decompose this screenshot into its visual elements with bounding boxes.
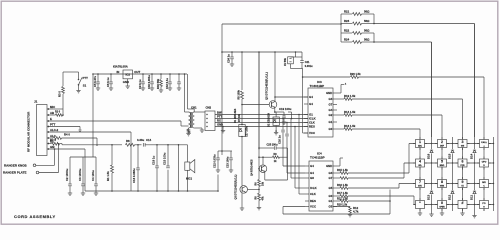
svg-text:1: 1 bbox=[419, 140, 421, 144]
keypad row wire bbox=[399, 183, 494, 185]
svg-text:C13 0.068u: C13 0.068u bbox=[132, 168, 136, 183]
svg-text:4: 4 bbox=[419, 160, 421, 164]
svg-text:R16 1.5k: R16 1.5k bbox=[337, 183, 348, 187]
svg-text:MIC1: MIC1 bbox=[186, 177, 193, 180]
capacitor C18 1u bbox=[156, 145, 158, 166]
keypad column ground bbox=[462, 209, 464, 214]
capacitor C4 100u bbox=[95, 157, 97, 184]
svg-text:R21: R21 bbox=[344, 10, 350, 14]
svg-text:J1: J1 bbox=[34, 100, 38, 104]
capacitor C9 0.1u bbox=[142, 73, 144, 75]
svg-text:56Ω: 56Ω bbox=[364, 19, 370, 23]
wire ALC-2 pin bbox=[49, 131, 131, 133]
hook IC4 GND bbox=[337, 165, 340, 167]
svg-text:R11 1.5k: R11 1.5k bbox=[337, 197, 348, 201]
capacitor C6 0.1u bbox=[110, 73, 112, 75]
svg-text:R17 1.5k: R17 1.5k bbox=[337, 191, 348, 195]
svg-text:D2 KB262H: D2 KB262H bbox=[266, 113, 270, 127]
capacitor C11 bbox=[178, 73, 180, 75]
svg-text:Q3 DTC114ES(R,G,L): Q3 DTC114ES(R,G,L) bbox=[235, 174, 238, 199]
svg-text:PTT: PTT bbox=[50, 123, 56, 127]
svg-text:0.001u: 0.001u bbox=[305, 65, 313, 68]
svg-text:G7: G7 bbox=[329, 103, 333, 107]
wire emitter to IC3 bbox=[288, 111, 292, 113]
zener D1 RD5.6ES loop bbox=[239, 125, 245, 137]
svg-text:R7 0: R7 0 bbox=[50, 138, 56, 142]
svg-text:G4: G4 bbox=[310, 164, 314, 168]
svg-text:R18 1.5k: R18 1.5k bbox=[337, 204, 348, 207]
svg-text:G0: G0 bbox=[329, 127, 333, 131]
wire x302.6 VCC drop to IC3 bbox=[301, 68, 304, 70]
svg-text:56Ω: 56Ω bbox=[364, 38, 370, 42]
capacitor C19 100u bbox=[275, 111, 284, 113]
svg-text:R2 0: R2 0 bbox=[55, 111, 61, 114]
svg-text:47k: 47k bbox=[262, 196, 265, 201]
svg-text:7: 7 bbox=[419, 180, 421, 184]
svg-text:D14: D14 bbox=[470, 153, 474, 159]
svg-text:TC4011BP: TC4011BP bbox=[310, 155, 325, 159]
wire x259 VCC drop to C25 line bbox=[258, 51, 260, 53]
svg-text:R23: R23 bbox=[344, 19, 350, 23]
svg-text:MR: MR bbox=[482, 182, 486, 184]
svg-text:R3 0: R3 0 bbox=[58, 91, 62, 97]
svg-text:G1: G1 bbox=[329, 199, 333, 203]
svg-text:CH1: CH1 bbox=[191, 106, 197, 110]
svg-text:R10 56k: R10 56k bbox=[156, 78, 160, 89]
svg-text:C2 1000u: C2 1000u bbox=[65, 168, 69, 181]
svg-text:VCC: VCC bbox=[309, 131, 315, 135]
wire R13 down x420 bbox=[419, 129, 421, 137]
svg-text:D1 RD5.6ES: D1 RD5.6ES bbox=[234, 108, 237, 123]
key switch 9 bbox=[458, 180, 467, 188]
ground rail wire y191 bbox=[85, 190, 218, 192]
svg-text:C25 100u: C25 100u bbox=[267, 144, 278, 147]
key switch 7 bbox=[416, 180, 425, 188]
svg-text:D15: D15 bbox=[448, 153, 452, 159]
svg-text:G7: G7 bbox=[329, 176, 333, 180]
svg-text:RX: RX bbox=[217, 119, 221, 123]
svg-text:R4 0: R4 0 bbox=[64, 132, 70, 136]
svg-text:G4: G4 bbox=[309, 102, 313, 106]
key switch 8 bbox=[438, 180, 447, 188]
IC4 TC4011BP bbox=[309, 161, 333, 211]
keypad column wire bbox=[462, 137, 464, 209]
svg-text:8: 8 bbox=[441, 180, 443, 184]
keypad bus 2 bbox=[452, 137, 454, 211]
svg-text:X1 56k: X1 56k bbox=[284, 57, 287, 66]
wire crystal bottom manifold bbox=[291, 68, 303, 70]
wire rail to CH1 bbox=[184, 74, 186, 112]
svg-text:S1: S1 bbox=[83, 83, 87, 87]
keypad row wire bbox=[404, 162, 494, 164]
svg-text:BW: BW bbox=[217, 111, 222, 115]
svg-text:C4 100u: C4 100u bbox=[91, 170, 95, 181]
svg-text:C12 0.1u: C12 0.1u bbox=[165, 78, 169, 89]
resistor R7 0 on RX row bbox=[49, 143, 51, 145]
capacitor R10 56k bbox=[160, 73, 162, 75]
key switch 4 bbox=[416, 159, 425, 167]
svg-text:D11: D11 bbox=[470, 195, 474, 200]
svg-text:G2: G2 bbox=[329, 113, 333, 117]
keypad bus 1 bbox=[431, 42, 433, 214]
IC2 KIA78L05A regulator bbox=[123, 70, 133, 79]
microphone MIC1 bbox=[187, 145, 189, 162]
svg-text:CALL: CALL bbox=[481, 141, 487, 144]
wire AB pin with R2 0 bbox=[49, 114, 56, 116]
diode D11 bbox=[473, 190, 477, 194]
wire R19 down x462.5 bbox=[462, 99, 464, 137]
svg-text:IN: IN bbox=[117, 70, 120, 74]
svg-text:C5 0.47u: C5 0.47u bbox=[93, 76, 97, 87]
svg-text:AB: AB bbox=[50, 111, 54, 115]
wire R20 down x484 bbox=[483, 77, 485, 137]
svg-text:9: 9 bbox=[462, 180, 464, 184]
svg-text:R1 1.5k: R1 1.5k bbox=[106, 171, 110, 181]
wire rail191 end riser x218 bbox=[217, 175, 219, 192]
svg-text:D12: D12 bbox=[448, 194, 452, 200]
svg-text:CLK: CLK bbox=[310, 192, 317, 196]
wire GM pin bbox=[49, 148, 85, 150]
svg-text:ABC: ABC bbox=[418, 145, 423, 148]
manifold wire y151 bbox=[218, 150, 232, 152]
svg-text:CORD ASSEMBLY: CORD ASSEMBLY bbox=[14, 214, 56, 219]
svg-text:UFO: UFO bbox=[482, 162, 487, 164]
diode D12 bbox=[451, 190, 455, 194]
switch S1 PTT bbox=[63, 71, 79, 73]
hook IC3 GND arrow bbox=[337, 92, 341, 94]
wire x275 to Q5 bbox=[274, 51, 276, 53]
wires CH1 to CN2 bbox=[194, 111, 205, 113]
capacitor C15 100u bbox=[167, 145, 169, 166]
svg-text:C27 100u: C27 100u bbox=[246, 126, 249, 137]
svg-text:56Ω: 56Ω bbox=[364, 29, 370, 33]
keypad row wire bbox=[414, 204, 494, 206]
diode D13 bbox=[430, 190, 434, 194]
audio bus wire bbox=[60, 143, 63, 145]
svg-text:G0: G0 bbox=[329, 194, 333, 198]
capacitor C12 0.1u bbox=[169, 73, 171, 75]
wire y24 to resistor bank bbox=[222, 23, 341, 25]
Q3 collector wire bbox=[241, 137, 243, 186]
resistor R9 1k parallel bbox=[259, 156, 273, 158]
key switch 5 bbox=[438, 159, 447, 167]
wire E pin bbox=[49, 120, 181, 122]
svg-text:PO: PO bbox=[482, 203, 485, 205]
key switch 6 bbox=[458, 159, 467, 167]
resistor R12 4.7k bbox=[333, 206, 350, 208]
svg-text:C23 100u: C23 100u bbox=[226, 156, 230, 168]
svg-text:C16 1u: C16 1u bbox=[278, 135, 282, 144]
diode D14 bbox=[473, 149, 477, 153]
svg-text:R5 100k: R5 100k bbox=[238, 89, 241, 99]
wire Q5 collector to IC3 bbox=[275, 96, 308, 98]
svg-text:C22 0.033u: C22 0.033u bbox=[213, 154, 217, 168]
svg-text:G4: G4 bbox=[309, 95, 313, 99]
svg-text:PQR: PQR bbox=[460, 165, 465, 167]
svg-text:G4: G4 bbox=[310, 171, 314, 175]
svg-text:R8: R8 bbox=[126, 139, 130, 143]
svg-text:RF MODULAR CONNECTOR: RF MODULAR CONNECTOR bbox=[27, 111, 31, 152]
svg-text:C19 100u: C19 100u bbox=[279, 107, 292, 111]
keypad column ground bbox=[419, 209, 421, 214]
CALL column bottom stub bbox=[483, 209, 485, 212]
svg-text:GND: GND bbox=[123, 80, 129, 84]
Q4 emitter wire bbox=[264, 172, 266, 180]
svg-text:OPER: OPER bbox=[439, 207, 445, 209]
key switch 0 bbox=[438, 201, 447, 209]
left-side verticals to IC4 bbox=[282, 119, 284, 167]
svg-text:C10 0.001u: C10 0.001u bbox=[147, 75, 151, 89]
IC3 TC4011BP bbox=[308, 88, 333, 137]
svg-text:R20 1.5k: R20 1.5k bbox=[350, 72, 361, 76]
key switch 2 bbox=[438, 140, 447, 148]
svg-text:2: 2 bbox=[441, 140, 443, 144]
keypad column wire bbox=[419, 137, 421, 209]
svg-text:PTT: PTT bbox=[217, 115, 222, 119]
capacitor C3 1000u bbox=[82, 157, 84, 184]
connector CN2 bbox=[205, 111, 215, 131]
resistor R5 100k bbox=[241, 51, 243, 53]
svg-text:Q5 DTC114ES(R,G,L): Q5 DTC114ES(R,G,L) bbox=[265, 72, 269, 100]
svg-text:56Ω: 56Ω bbox=[364, 10, 370, 14]
svg-text:GND: GND bbox=[326, 164, 332, 168]
wire RC right vertical bbox=[287, 148, 289, 180]
svg-text:CN2: CN2 bbox=[206, 106, 212, 110]
key switch * bbox=[416, 201, 425, 209]
capacitor C10 0.001u bbox=[151, 73, 153, 75]
wire drop x178.5 bbox=[178, 145, 180, 191]
capacitor C25 100u parallel bbox=[259, 147, 274, 149]
key switch 1 bbox=[416, 140, 425, 148]
connector J1 bbox=[37, 105, 48, 156]
diode D16 bbox=[430, 149, 434, 153]
svg-text:R15 1.5k: R15 1.5k bbox=[337, 168, 348, 172]
svg-text:▲: ▲ bbox=[483, 145, 485, 148]
diode D15 bbox=[451, 149, 455, 153]
svg-text:GND: GND bbox=[326, 91, 332, 95]
svg-text:RES: RES bbox=[310, 199, 316, 203]
svg-text:D13: D13 bbox=[427, 194, 431, 200]
svg-text:G5: G5 bbox=[329, 205, 333, 209]
svg-text:10k: 10k bbox=[262, 181, 265, 186]
svg-text:C9 0.1u: C9 0.1u bbox=[138, 79, 142, 89]
svg-text:IC2: IC2 bbox=[126, 73, 131, 77]
resistor bank R21-R24 bbox=[340, 14, 342, 42]
svg-text:6: 6 bbox=[462, 160, 464, 164]
keypad column wire bbox=[441, 137, 443, 209]
keypad row wire bbox=[409, 143, 494, 145]
wire PTT pin bbox=[49, 126, 80, 128]
svg-text:/CLK: /CLK bbox=[310, 186, 318, 190]
svg-text:G5: G5 bbox=[329, 186, 333, 190]
key switch CALL bbox=[480, 140, 489, 148]
x259 column down bbox=[258, 52, 260, 180]
svg-text:0: 0 bbox=[441, 201, 443, 205]
Q3 emitter ground bbox=[241, 193, 243, 209]
svg-text:E: E bbox=[50, 117, 52, 121]
svg-text:5: 5 bbox=[441, 160, 443, 164]
capacitor C24 1u bbox=[231, 51, 233, 53]
svg-text:R7 10k: R7 10k bbox=[238, 113, 241, 122]
capacitor C2 1000u bbox=[69, 157, 71, 184]
svg-text:RANGER KNOB: RANGER KNOB bbox=[4, 163, 28, 167]
svg-text:4.7k: 4.7k bbox=[353, 210, 359, 214]
svg-text:RANGER PLATE: RANGER PLATE bbox=[3, 171, 26, 175]
svg-text:RES: RES bbox=[309, 125, 315, 129]
svg-text:GHI: GHI bbox=[461, 146, 465, 148]
resistor R6 10k bbox=[258, 180, 261, 187]
svg-text:G3: G3 bbox=[329, 97, 333, 101]
svg-text:C15 100u: C15 100u bbox=[163, 152, 167, 165]
svg-text:C24 1u: C24 1u bbox=[227, 54, 231, 63]
keypad bus 4 bbox=[493, 137, 495, 211]
svg-text:KIA78L05A: KIA78L05A bbox=[113, 65, 128, 69]
svg-text:C3 1000u: C3 1000u bbox=[78, 168, 82, 181]
svg-text:C6 0.1u: C6 0.1u bbox=[106, 77, 110, 87]
wire VCC riser x222 bbox=[221, 24, 223, 155]
capacitor C23 100u bbox=[230, 151, 232, 158]
resistor R3 0 (vertical line to S1) bbox=[62, 72, 64, 86]
key switch PO bbox=[480, 201, 489, 209]
capacitor C21 0.001u bbox=[301, 57, 303, 60]
svg-text:ALC-2: ALC-2 bbox=[50, 128, 59, 132]
key switch 3 bbox=[458, 140, 467, 148]
capacitor C22 0.033u bbox=[217, 151, 219, 158]
key switch # bbox=[458, 201, 467, 209]
power rail wire y74 bbox=[93, 73, 187, 75]
svg-text:D16: D16 bbox=[427, 153, 431, 159]
wire R14 down x442 bbox=[441, 115, 443, 137]
svg-text:G8: G8 bbox=[310, 176, 314, 180]
capacitor C13 0.068u bbox=[137, 145, 139, 168]
svg-text:MIC: MIC bbox=[50, 105, 55, 109]
svg-text:3: 3 bbox=[462, 140, 464, 144]
capacitor C16 1u bbox=[281, 130, 285, 133]
svg-text:MNO: MNO bbox=[440, 165, 445, 167]
svg-text:C14: C14 bbox=[146, 138, 152, 142]
ground on CN2 GND line bbox=[222, 126, 224, 128]
wire VCC rail y52 bbox=[222, 51, 302, 53]
wire bank out1 bbox=[374, 23, 475, 25]
svg-text:OUT: OUT bbox=[134, 70, 140, 74]
key switch UFO bbox=[480, 159, 489, 167]
capacitor C5 0.47u bbox=[97, 73, 99, 75]
svg-text:0.33u: 0.33u bbox=[137, 138, 144, 142]
capacitor C14 0.33u bbox=[142, 143, 144, 147]
wire bank out2 bbox=[374, 41, 432, 43]
wire IC3 pins left stubs bbox=[303, 96, 305, 98]
svg-text:PTT: PTT bbox=[83, 76, 89, 80]
svg-text:C18 1u: C18 1u bbox=[152, 156, 156, 165]
svg-text:R22: R22 bbox=[344, 29, 350, 33]
keypad bus 3 bbox=[474, 24, 476, 216]
svg-text:G1: G1 bbox=[329, 120, 333, 124]
svg-text:STU: STU bbox=[418, 186, 422, 188]
svg-text:C21: C21 bbox=[305, 61, 310, 64]
svg-text:#: # bbox=[462, 201, 464, 205]
svg-text:VCC: VCC bbox=[310, 205, 316, 209]
resistor R8 47k bbox=[258, 193, 261, 200]
svg-text:VWX: VWX bbox=[440, 186, 445, 188]
resistor R8 bbox=[126, 143, 135, 146]
wire riser x93 to caps bbox=[92, 74, 94, 157]
svg-text:TC4011BP: TC4011BP bbox=[310, 84, 325, 88]
resistor R4 0 on ALC row bbox=[49, 137, 53, 139]
IC4 VCC routing bbox=[283, 206, 305, 208]
capacitor C17 1u bbox=[285, 134, 289, 137]
wire Q3 base bbox=[248, 188, 260, 190]
keypad column wire bbox=[483, 137, 485, 209]
svg-text:G4: G4 bbox=[329, 108, 333, 112]
svg-text:G3: G3 bbox=[329, 171, 333, 175]
resistor under CH1 bbox=[188, 128, 190, 129]
keypad column ground bbox=[441, 209, 443, 214]
resistor R1 1.5k bbox=[111, 145, 113, 165]
wire MIC pin bbox=[49, 108, 63, 110]
svg-text:Q4 RTA144ES: Q4 RTA144ES bbox=[251, 159, 254, 176]
svg-text:R24: R24 bbox=[344, 38, 350, 42]
crystal X1 bbox=[295, 51, 297, 53]
key switch MR bbox=[480, 180, 489, 188]
